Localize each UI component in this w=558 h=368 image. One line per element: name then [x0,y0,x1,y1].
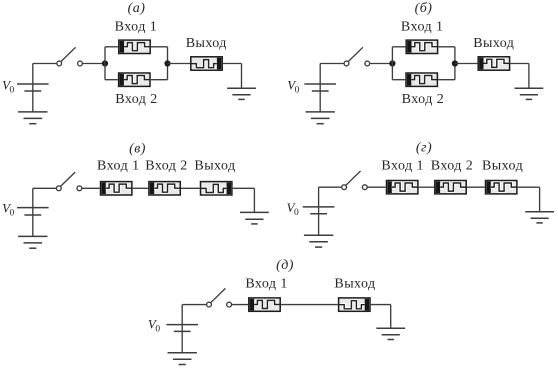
memristor "Вход 1" (circuit в) [101,182,132,195]
memristor "Вход 2" (circuit а) [119,73,150,86]
svg-text:V0: V0 [2,201,14,219]
battery V0 (circuit г) [303,187,335,235]
svg-text:V0: V0 [148,316,160,334]
svg-text:Выход: Выход [482,159,523,174]
memristor "Выход" (circuit б) [478,57,509,70]
battery V0 (circuit а) [17,64,49,112]
wire: output to ground corner (circuit б) [510,63,529,65]
svg-text:V0: V0 [2,78,14,96]
memristor "Выход" (circuit г) [486,181,517,194]
switch S (circuit г) [342,171,367,190]
wire: to input 1 (circuit а) [105,46,118,48]
svg-text:Вход 1: Вход 1 [245,277,288,292]
wire: output to ground corner (circuit а) [223,63,242,65]
svg-text:Вход 1: Вход 1 [97,159,140,174]
ground below battery (circuit г) [304,235,333,247]
junction node B1 (circuit б) [389,60,395,66]
ground output (circuit г) [525,212,554,223]
wire: down to ground (circuit г) [539,187,541,212]
wire: input 1 to input 2 (circuit г) [419,186,434,188]
wire: switch to input 1 (circuit г) [367,186,386,188]
battery V0 (circuit в) [17,188,49,236]
junction node A1 (circuit а) [102,60,108,66]
wire: branch riser right (circuit а) [167,47,169,80]
switch S (circuit а) [57,47,83,66]
memristor "Выход" (circuit в) [201,182,232,195]
memristor "Вход 1" (circuit б) [406,40,437,53]
svg-text:(а): (а) [128,1,146,16]
ground below battery (circuit в) [18,236,47,248]
wire: battery to switch (circuit б) [320,63,344,65]
memristor "Вход 2" (circuit б) [406,73,437,86]
wire: branch riser right (circuit б) [454,47,456,80]
svg-text:Вход 1: Вход 1 [401,19,444,34]
switch S (circuit б) [344,47,370,66]
svg-text:Вход 2: Вход 2 [145,159,188,174]
switch S (circuit в) [56,172,81,191]
wire: down to ground (circuit б) [528,64,530,89]
memristor "Вход 2" (circuit в) [149,182,180,195]
wire: node B2 to output (circuit б) [455,63,478,65]
svg-text:V0: V0 [287,200,299,218]
ground below battery (circuit д) [168,353,197,365]
svg-text:V0: V0 [287,78,299,96]
wire: switch to input 1 (circuit в) [82,187,100,189]
wire: branch riser left (circuit а) [104,47,106,80]
memristor "Вход 2" (circuit г) [435,181,466,194]
junction node A2 (circuit а) [164,60,170,66]
wire: input 2 to output (circuit г) [467,186,485,188]
battery V0 (circuit д) [166,305,198,353]
junction node B2 (circuit б) [452,60,458,66]
svg-text:(д): (д) [276,258,294,273]
wire: branch riser left (circuit б) [391,47,393,80]
wire: to input 2 (circuit б) [392,79,405,81]
wire: battery to switch (circuit а) [33,63,57,65]
svg-text:Выход: Выход [473,36,514,51]
wire: output to ground corner (circuit г) [518,186,540,188]
ground output (circuit в) [240,212,269,224]
wire: input 1 to node B2 (circuit б) [438,46,455,48]
svg-text:Выход: Выход [334,277,375,292]
svg-text:(г): (г) [416,140,432,155]
wire: switch to node A1 (circuit а) [82,63,105,65]
wire: to input 2 (circuit а) [105,79,118,81]
ground below battery (circuit б) [306,112,335,124]
ground output (circuit д) [376,328,405,339]
wire: battery to switch (circuit д) [182,304,206,306]
svg-text:(б): (б) [415,1,433,16]
ground output (circuit а) [227,88,256,99]
wire: input 2 to node B2 (circuit б) [438,79,455,81]
svg-text:Вход 1: Вход 1 [115,19,158,34]
battery V0 (circuit б) [304,64,336,112]
memristor "Вход 1" (circuit а) [119,40,150,53]
memristor "Выход" (circuit а) [191,57,222,70]
svg-text:Вход 2: Вход 2 [402,92,445,107]
wire: switch to node B1 (circuit б) [370,63,393,65]
wire: input 1 to node A2 (circuit а) [151,46,168,48]
svg-text:Вход 2: Вход 2 [431,159,474,174]
wire: down to ground (circuit в) [253,188,255,212]
wire: output to ground corner (circuit д) [371,304,391,306]
memristor "Вход 1" (circuit д) [249,298,280,311]
wire: input 2 to output (circuit в) [181,187,200,189]
svg-text:Вход 1: Вход 1 [381,159,424,174]
svg-text:Выход: Выход [186,36,227,51]
wire: node A2 to output (circuit а) [168,63,191,65]
wire: input 1 to input 2 (circuit в) [133,187,148,189]
wire: input 1 to output (circuit д) [281,304,338,306]
wire: down to ground (circuit д) [390,305,392,329]
wire: battery to switch (circuit г) [319,186,342,188]
wire: input 2 to node A2 (circuit а) [151,79,168,81]
memristor "Выход" (circuit д) [339,298,370,311]
wire: switch to input 1 (circuit д) [232,304,249,306]
svg-text:Выход: Выход [194,159,235,174]
svg-text:(в): (в) [129,141,146,156]
svg-text:Вход 2: Вход 2 [115,92,158,107]
ground below battery (circuit а) [18,112,47,124]
memristor "Вход 1" (circuit г) [387,181,418,194]
wire: output to ground corner (circuit в) [233,187,255,189]
switch S (circuit д) [207,288,232,307]
wire: down to ground (circuit а) [241,64,243,89]
ground output (circuit б) [515,88,544,99]
wire: to input 1 (circuit б) [392,46,405,48]
wire: battery to switch (circuit в) [33,187,57,189]
